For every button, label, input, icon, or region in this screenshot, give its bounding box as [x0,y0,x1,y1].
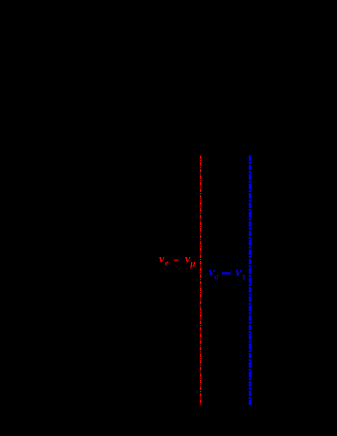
blue dash-dot vertical line (nu_b - nu_tau frequency marker) [249,156,252,406]
svg-text:σ: σ [214,272,219,281]
svg-text:e: e [165,259,169,268]
red dash-dot vertical line (nu_e - nu_mu frequency marker) [200,156,202,406]
svg-text:μ: μ [189,259,195,269]
blue label: nu_b minus nu_tau [209,264,247,281]
red label: nu_e minus nu_mu [159,252,195,269]
svg-text:ν: ν [235,264,241,279]
